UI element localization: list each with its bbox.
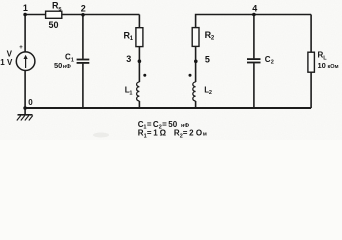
svg-text:О: О: [196, 129, 202, 138]
svg-text:10: 10: [318, 61, 326, 70]
svg-text:кОм: кОм: [328, 64, 339, 70]
svg-text:2: 2: [189, 129, 194, 138]
svg-text:1: 1: [153, 129, 158, 138]
svg-text:1: 1: [129, 90, 132, 96]
svg-text:4: 4: [252, 3, 257, 13]
svg-text:1 V: 1 V: [0, 58, 13, 67]
svg-text:2: 2: [271, 60, 274, 66]
svg-text:50: 50: [48, 20, 58, 30]
svg-text:2: 2: [81, 4, 86, 14]
svg-text:5: 5: [205, 54, 210, 64]
svg-text:50: 50: [54, 61, 62, 70]
svg-text:м: м: [203, 132, 207, 138]
svg-text:+: +: [19, 45, 23, 51]
svg-text:0: 0: [28, 98, 33, 107]
svg-text:1: 1: [23, 3, 28, 13]
svg-text:=: =: [183, 129, 188, 138]
svg-text:=: =: [147, 129, 152, 138]
svg-text:1: 1: [71, 57, 74, 63]
svg-text:2: 2: [209, 90, 212, 96]
svg-text:3: 3: [126, 54, 131, 64]
svg-text:нФ: нФ: [63, 64, 71, 70]
svg-text:Ω: Ω: [160, 129, 167, 138]
